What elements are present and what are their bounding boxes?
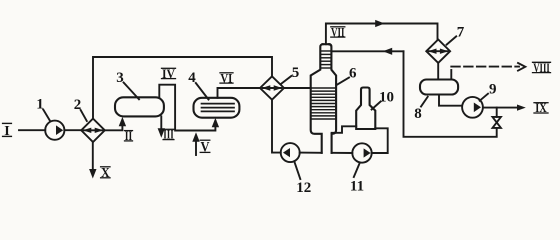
svg-text:10: 10 (379, 90, 394, 106)
vessel 3 (115, 97, 164, 116)
node I feed label (3, 123, 12, 138)
valve (493, 117, 501, 128)
label 10 (372, 90, 394, 110)
wire exchanger 2 down to X arrow (92, 142, 94, 170)
label 6 (337, 65, 357, 85)
node IV label (162, 67, 176, 81)
svg-text:2: 2 (74, 97, 82, 113)
wire reboiler 10 right leg down to pump 11 (372, 128, 388, 153)
arrow node V (192, 132, 199, 141)
wire vessel 8 to pump 9 (439, 95, 462, 106)
wire column bottoms run to pump 12 (300, 152, 322, 154)
wire column bottoms run to pump 11 (332, 152, 353, 154)
pump 12 (281, 143, 300, 162)
arrow on overhead line (375, 20, 384, 27)
svg-text:5: 5 (292, 65, 300, 81)
node III label (163, 128, 174, 142)
arrow to node X (89, 169, 96, 179)
wire I to pump 1 (19, 129, 45, 131)
arrow into vessel 4 bottom (212, 118, 219, 127)
arrow vessel 3 bottoms to node III (158, 116, 165, 137)
pump 11 (352, 143, 371, 162)
vessel 8 (420, 80, 458, 95)
pump 1 (45, 121, 64, 140)
node X label (101, 166, 110, 181)
pump 9 (462, 97, 483, 118)
node VII label (331, 25, 345, 39)
wire node V feed up into junction (195, 139, 197, 155)
column 6 neck packing (321, 51, 332, 68)
label 3 (116, 70, 139, 100)
label 9 (480, 82, 497, 101)
wire vessel 4 overhead to exchanger 5 (218, 88, 261, 98)
wire condenser 7 to vessel 8 (437, 63, 439, 80)
label 1 (36, 97, 50, 122)
wire column 6 overhead VII to condenser 7 (326, 24, 438, 45)
svg-text:4: 4 (188, 70, 196, 86)
vessel 4 (194, 98, 240, 118)
svg-text:8: 8 (414, 106, 422, 122)
heat exchanger 5 (260, 76, 284, 99)
reflux line into column top (333, 50, 404, 52)
open arrow node VIII (518, 63, 525, 71)
wire exchanger 5 to column 6 feed (284, 87, 311, 89)
node II label (125, 129, 133, 143)
column 6 (311, 44, 336, 153)
wire exchanger 2 to vessel 3 feed riser (105, 121, 123, 130)
reboiler vessel 10 (bottle) (356, 88, 375, 130)
svg-text:12: 12 (296, 180, 311, 196)
wire top rail from exchanger 2 up and right to exchanger 5 (93, 57, 272, 119)
node IX label (534, 101, 548, 115)
svg-text:11: 11 (350, 179, 364, 195)
label 4 (188, 70, 208, 100)
column 6 body packing (311, 88, 336, 119)
label 7 (447, 24, 465, 44)
wire vessel 3 overhead riser IV down to vessel 4 feed (159, 85, 215, 131)
label 12 (294, 161, 311, 196)
label 5 (281, 65, 299, 84)
dashed vent line to node VIII (451, 67, 519, 79)
wire pump 1 to exchanger 2 (64, 129, 81, 131)
label 2 (74, 97, 87, 121)
wire pump 9 to node IX (483, 107, 517, 109)
node VIII label (533, 61, 551, 75)
wire exchanger 5 down to pump 12 (272, 100, 281, 153)
wire reflux branch: down from IX line through valve (496, 108, 498, 117)
label 8 (414, 97, 427, 122)
condenser 7 (426, 40, 450, 63)
svg-text:7: 7 (457, 24, 465, 40)
arrow into vessel 3 bottom, node II (119, 117, 126, 126)
heat exchanger 2 (81, 119, 105, 142)
svg-text:3: 3 (116, 70, 124, 86)
svg-text:X: X (101, 166, 110, 181)
svg-text:9: 9 (489, 82, 497, 98)
svg-text:6: 6 (349, 65, 357, 81)
arrow node IX (517, 105, 526, 111)
node V label (200, 139, 210, 155)
wire reboiler 10 return to column bottom (332, 126, 357, 133)
arrow reflux into column (383, 48, 392, 55)
wire valve down, left along bottom, up to reflux line (404, 51, 497, 137)
node VI label (220, 71, 233, 85)
label 11 (350, 163, 364, 195)
svg-text:1: 1 (36, 97, 44, 113)
